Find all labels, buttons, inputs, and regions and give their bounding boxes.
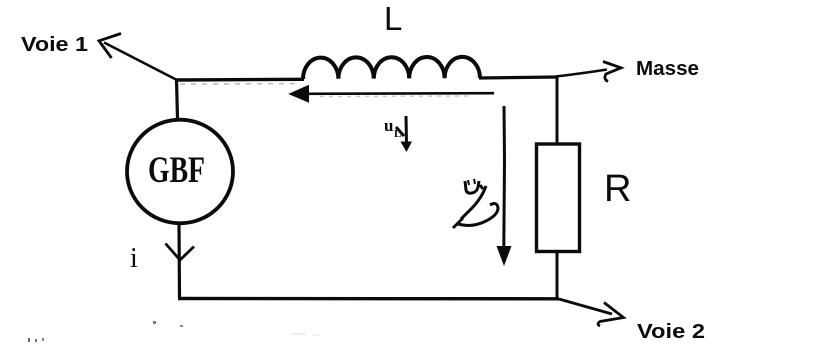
scan ghost under top wire	[180, 83, 300, 86]
wire: resistor bottom to bottom rail	[556, 251, 559, 299]
noise dot 1	[153, 321, 156, 324]
svg-text:Masse: Masse	[636, 57, 699, 80]
wire: Voie 2 lead line	[559, 299, 612, 314]
svg-text:Voie 1: Voie 1	[21, 33, 88, 56]
wire: top-right from inductor to junction B	[479, 77, 558, 78]
uL small down arrow	[405, 116, 409, 144]
arrow head to Voie 2	[598, 303, 624, 327]
wire: bottom rail	[178, 297, 559, 301]
arrow head to Masse	[603, 62, 621, 82]
svg-text:GBF: GBF	[148, 150, 205, 191]
resistor R body	[537, 144, 580, 252]
arrow under inductor (orientation arrow, points left)	[300, 92, 494, 95]
wire: node A down to GBF	[177, 79, 178, 119]
svg-text:i: i	[130, 243, 138, 274]
label uR swoosh	[453, 186, 498, 228]
wire: Voie 1 lead line	[104, 43, 176, 80]
current arrow i chevron	[166, 244, 195, 261]
inductor L	[303, 57, 480, 79]
scan ghost under orientation arrow	[320, 95, 470, 98]
svg-text:L: L	[384, 0, 402, 37]
noise marks bottom left	[28, 338, 30, 342]
svg-text:u: u	[384, 116, 393, 135]
uR arrow head (filled)	[497, 246, 512, 266]
label uR handwritten u	[465, 181, 483, 193]
wire: GBF bottom to bottom rail	[177, 224, 181, 298]
svg-text:R: R	[604, 168, 631, 210]
node B junction wire down to resistor	[556, 77, 559, 145]
uR arrow vertical line	[502, 106, 506, 248]
svg-text:Voie 2: Voie 2	[637, 320, 705, 343]
arrow head (filled) of left arrow	[290, 86, 309, 103]
arrow head to Voie 1	[99, 34, 121, 59]
noise smudge bottom middle	[292, 333, 306, 335]
noise dot 2	[180, 325, 183, 327]
wire: Masse lead line	[556, 70, 607, 77]
GBF generator circle	[127, 120, 233, 224]
wire: top-left horizontal from node A to inductor	[175, 78, 304, 82]
